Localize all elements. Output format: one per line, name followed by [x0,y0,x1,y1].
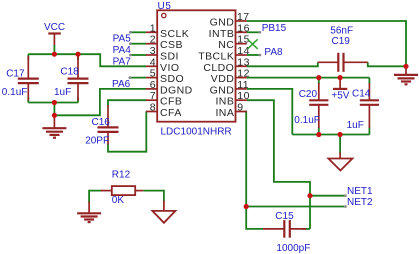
wire C20 bottom branch [318,128,320,135]
svg-text:4: 4 [150,56,156,68]
svg-text:R12: R12 [112,169,131,180]
svg-text:+5V: +5V [331,90,349,101]
wire pin 10 INB to NET1 node [247,100,310,229]
no-connect X pin 15 [248,39,258,49]
svg-text:12: 12 [237,68,250,80]
wire pin 14 TBCLK to PA8 [247,54,260,56]
pin 12 VDD [211,68,250,86]
wire pin 12 VDD rail [247,77,370,79]
svg-text:7: 7 [150,90,156,102]
svg-text:13: 13 [237,56,250,68]
svg-text:11: 11 [237,79,249,91]
wire pin 6 DGND to ground [54,89,146,115]
earth triangle under rail [328,153,352,171]
capacitor C19 [318,25,368,71]
pin 3 SDI [146,45,179,63]
svg-text:56nF: 56nF [330,25,353,36]
pin 9 INA [215,102,246,120]
node C18 top [75,52,80,57]
wire C18 branch [77,54,79,102]
svg-text:17: 17 [237,11,250,23]
svg-text:14: 14 [237,45,250,57]
wire ground stem upper [53,103,55,116]
svg-text:TBCLK: TBCLK [198,51,234,63]
wire VCC top rail to pin 4 VIO [28,54,146,66]
svg-text:SDO: SDO [160,73,184,85]
svg-text:CFB: CFB [160,96,182,108]
wire pin 2 CSB [130,43,146,45]
resistor R12 [101,169,144,206]
svg-text:NET2: NET2 [347,197,373,208]
svg-text:NET1: NET1 [347,186,373,197]
net label attach dots [128,31,346,208]
node bottom rail gnd [52,100,57,105]
power +5V [331,78,349,102]
node C20 bottom [316,132,321,137]
wire bottom rail C17 C18 [28,102,78,104]
pin 10 INB [215,90,249,108]
node earth stem [338,132,343,137]
svg-text:U5: U5 [158,1,172,12]
svg-text:PA4: PA4 [113,45,132,56]
svg-text:LDC1001NHRR: LDC1001NHRR [161,127,232,138]
svg-text:CFA: CFA [160,107,182,119]
pin 11 GND [210,79,249,97]
svg-text:10: 10 [237,90,250,102]
svg-text:PB15: PB15 [262,23,287,34]
svg-text:6: 6 [150,79,156,91]
wire C14 bottom branch [368,128,370,135]
wire C15 left branch [246,207,263,229]
node C19 right gnd [403,64,408,69]
wire pin 3 SDI [130,54,146,56]
svg-text:16: 16 [237,22,250,34]
svg-text:1000pF: 1000pF [276,243,310,254]
ground right of C19 [394,66,418,84]
pin 1 SCLK [146,22,189,40]
wire pin 11 GND down [247,89,292,135]
wire pin 5 SDO [130,77,146,79]
wire pin 1 SCLK [130,31,146,33]
power VCC [44,22,65,54]
pin 2 CSB [146,34,183,52]
svg-text:1uF: 1uF [54,87,71,98]
pin 6 DGND [146,79,193,97]
IC U5 body [157,10,235,121]
svg-text:VCC: VCC [44,22,65,33]
svg-text:C18: C18 [60,67,79,78]
svg-text:SDI: SDI [160,51,179,63]
node NET2 [244,204,249,209]
pin 8 CFA [146,102,182,120]
wire bottom rail C20 C14 [292,134,369,136]
capacitor C17 [2,56,39,101]
wire NET1 branch [310,195,345,197]
svg-text:VIO: VIO [160,62,179,74]
capacitor C18 [54,56,89,101]
wire C14 top branch [368,78,370,84]
svg-text:1: 1 [150,22,156,34]
svg-text:INB: INB [215,96,234,108]
svg-text:PA8: PA8 [264,47,283,58]
svg-text:GND: GND [210,17,235,29]
wire R12 left to ground [89,191,102,203]
wire pin 7 CFB to C16 [108,100,146,106]
svg-text:CSB: CSB [160,39,183,51]
svg-text:PA7: PA7 [113,56,132,67]
wire C20 top branch [318,78,320,84]
wire C19 right to ground node [368,62,406,66]
svg-text:20PF: 20PF [85,136,109,147]
pin 17 GND [210,11,250,29]
svg-text:NC: NC [218,39,234,51]
svg-text:3: 3 [150,45,156,57]
wire pin 17 GND to right ground [247,21,406,66]
svg-text:VDD: VDD [211,73,235,85]
svg-text:C19: C19 [332,36,351,47]
svg-text:C14: C14 [352,88,371,99]
svg-text:PA6: PA6 [112,79,131,90]
pin 14 TBCLK [198,45,250,63]
pin 7 CFB [146,90,182,108]
wire R12 right to earth [143,191,164,202]
svg-text:GND: GND [210,84,235,96]
svg-text:INA: INA [215,107,234,119]
wire NET2 horizontal [246,206,345,208]
capacitor C16 [85,105,118,147]
svg-text:C16: C16 [92,117,111,128]
wire pin 9 INA down [244,112,246,207]
node VCC rail [52,52,57,57]
svg-text:C20: C20 [299,89,318,100]
svg-text:C17: C17 [6,69,25,80]
node NET1 [307,193,312,198]
svg-text:5: 5 [150,68,156,80]
svg-text:1uF: 1uF [347,120,364,131]
svg-text:8: 8 [150,102,156,114]
svg-text:0K: 0K [112,195,125,206]
svg-text:2: 2 [150,34,156,46]
pin 4 VIO [146,56,180,74]
node +5V [338,75,343,80]
wire C15 right branch [302,228,310,230]
svg-text:0.1uF: 0.1uF [2,87,28,98]
wire C17 branch [27,54,29,102]
pin 16 INTB [209,22,250,40]
svg-text:CLDO: CLDO [203,62,234,74]
capacitor C20 [294,83,328,128]
capacitor C14 [347,83,379,131]
svg-text:0.1uF: 0.1uF [294,115,320,126]
earth triangle right of R12 [152,201,175,223]
svg-text:DGND: DGND [160,84,193,96]
pin 5 SDO [146,68,184,86]
wire earth stem [339,135,341,154]
svg-text:SCLK: SCLK [160,28,189,40]
pin 13 CLDO [203,56,250,74]
svg-text:9: 9 [237,102,243,114]
node C20 top [316,75,321,80]
node pin6 gnd [52,113,57,118]
wire pin 16 INTB to PB15 [247,31,260,33]
capacitor C15 [263,211,310,254]
ground under C17 C18 [42,115,66,137]
svg-text:C15: C15 [275,211,294,222]
svg-text:PA5: PA5 [113,34,132,45]
ground left of R12 [77,202,101,223]
wire pin 13 CLDO to C19 left [247,62,318,66]
wire C16 bottom to pin 8 CFA [108,112,146,152]
pin 15 NC [218,34,250,52]
svg-text:INTB: INTB [209,28,235,40]
